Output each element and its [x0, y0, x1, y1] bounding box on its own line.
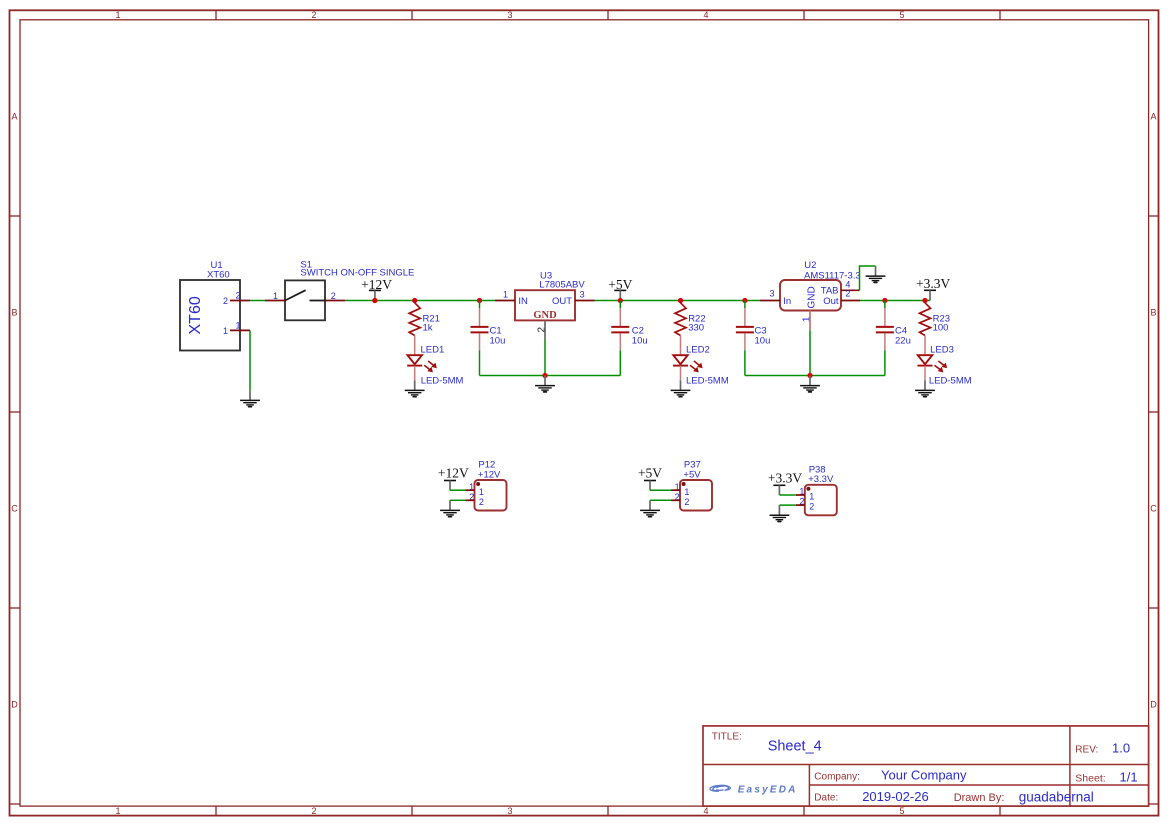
P37 pin 1 stub	[671, 489, 680, 491]
U3 pin OUT name	[552, 296, 572, 307]
R21 top stub	[414, 301, 416, 303]
power flag +12V net	[361, 277, 392, 301]
P38 pin 1 number	[799, 487, 804, 497]
title block frame	[703, 726, 1149, 806]
capacitor C1	[471, 301, 489, 376]
junction at C4	[882, 298, 887, 303]
connector P38 body	[805, 485, 837, 516]
svg-text:1: 1	[503, 290, 508, 300]
U2 pin Out name	[823, 296, 839, 307]
P38 value label +3.3V	[808, 474, 834, 485]
wire U3 GND to ground rail	[544, 340, 546, 376]
junction at R21	[412, 298, 417, 303]
svg-text:D: D	[1150, 700, 1157, 710]
wire P37 pin1	[650, 489, 671, 491]
P12 pin 2 stub	[466, 499, 475, 501]
svg-text:OUT: OUT	[552, 296, 572, 307]
U1 pin 2 stub	[230, 300, 250, 302]
C2 value label 10u	[632, 335, 648, 346]
connector P12 body	[475, 480, 507, 511]
junction at C1	[477, 298, 482, 303]
svg-text:A: A	[1150, 112, 1156, 122]
wire P12 pin1	[450, 489, 466, 491]
P12 pin 1 name	[479, 487, 484, 497]
svg-text:2: 2	[809, 502, 814, 512]
svg-text:1: 1	[684, 487, 689, 497]
LED3 reference label	[930, 345, 954, 356]
R23 reference label	[933, 313, 950, 324]
P38 pin 2 number	[799, 497, 804, 507]
U1 symbol text XT60 rotated	[187, 296, 204, 334]
S1 lever	[285, 290, 306, 300]
svg-text:LED2: LED2	[686, 345, 710, 356]
svg-text:10u: 10u	[490, 335, 506, 346]
svg-text:1: 1	[115, 10, 120, 20]
capacitor C4	[876, 301, 894, 376]
U2 pin 3 number	[769, 288, 774, 298]
svg-text:SWITCH ON-OFF SINGLE: SWITCH ON-OFF SINGLE	[300, 268, 414, 279]
svg-text:+12V: +12V	[361, 277, 392, 292]
connector U1 XT60 body	[180, 280, 240, 351]
svg-text:1: 1	[479, 487, 484, 497]
svg-text:D: D	[11, 700, 18, 710]
svg-text:+12V: +12V	[438, 466, 469, 481]
ground at U2 TAB	[866, 266, 886, 282]
title block TITLE label	[712, 731, 742, 742]
P37 pin1 marker dot	[682, 482, 686, 486]
S1 value label SWITCH ON-OFF SINGLE	[300, 268, 414, 279]
svg-text:+5V: +5V	[608, 277, 632, 292]
R23 top stub	[924, 301, 926, 303]
U3 pin 1 stub	[495, 300, 515, 302]
drawn by value guadabernal	[1019, 789, 1094, 804]
P12 reference label	[478, 460, 495, 471]
P37 pin 1 name	[684, 487, 689, 497]
ground at P12	[440, 500, 460, 516]
U2 pin TAB name	[821, 285, 839, 296]
P37 reference label	[684, 460, 701, 471]
svg-text:Out: Out	[823, 296, 839, 307]
C4 value label 22u	[895, 335, 911, 346]
S1 pin 1 number	[273, 291, 278, 301]
svg-text:3: 3	[507, 10, 512, 20]
LED LED3	[918, 336, 948, 381]
svg-text:10u: 10u	[632, 335, 648, 346]
R21 value label 1k	[423, 322, 433, 333]
P38 reference label	[809, 464, 826, 475]
LED1 reference label	[421, 345, 445, 356]
resistor R22	[675, 303, 686, 336]
svg-text:1: 1	[223, 326, 228, 336]
wire U1 pin1 to ground	[249, 330, 251, 390]
company value Your Company	[881, 768, 967, 783]
svg-text:C: C	[11, 504, 18, 514]
LED LED2	[673, 336, 703, 381]
junction at R23	[922, 298, 927, 303]
svg-text:4: 4	[703, 10, 708, 20]
P12 pin 2 name	[479, 497, 484, 507]
U2 pin 2 number	[845, 288, 850, 298]
U2 pin 4 number	[845, 280, 850, 290]
EasyEDA logo	[710, 784, 798, 795]
C4 reference label	[895, 326, 907, 337]
svg-text:4: 4	[703, 806, 708, 816]
U1 pin 2 name	[223, 296, 228, 306]
svg-text:2: 2	[479, 497, 484, 507]
title block Drawn By label	[954, 792, 1005, 804]
wire U2 GND to ground rail	[809, 330, 811, 375]
title block Date label	[814, 793, 838, 804]
C2 reference label	[632, 326, 644, 337]
U3 pin 3 number	[580, 290, 585, 300]
svg-text:In: In	[783, 296, 791, 307]
svg-text:LED1: LED1	[421, 345, 445, 356]
U1 pin 2 number	[235, 291, 240, 301]
U3 pin 1 number	[503, 290, 508, 300]
svg-text:Your Company: Your Company	[881, 768, 967, 783]
svg-text:EasyEDA: EasyEDA	[738, 784, 798, 795]
ground at U1 pin 1	[240, 390, 260, 406]
S1 pin 2 stub	[325, 300, 345, 302]
P12 pin1 marker dot	[476, 482, 480, 486]
connector P37 body	[680, 480, 712, 511]
P38 pin1 marker dot	[806, 487, 810, 491]
S1 pin 1 stub	[265, 300, 285, 302]
U3 pin 3 stub	[575, 300, 595, 302]
ground at LED2	[671, 380, 691, 396]
svg-text:2: 2	[235, 291, 240, 301]
switch S1 body	[285, 280, 325, 320]
junction at R22	[678, 298, 683, 303]
P37 pin 2 name	[684, 497, 689, 507]
svg-text:XT60: XT60	[187, 296, 204, 334]
P37 pin 2 stub	[671, 499, 680, 501]
U2 pin GND name rotated	[807, 286, 818, 308]
title block REV label	[1075, 745, 1098, 756]
junction at U2 ground	[807, 373, 812, 378]
P37 pin 1 number	[675, 482, 680, 492]
svg-text:REV:: REV:	[1075, 745, 1098, 756]
wire ground rail under U2	[745, 375, 885, 377]
wire U2 TAB to ground	[860, 266, 876, 290]
svg-text:2: 2	[223, 296, 228, 306]
resistor R23	[920, 303, 931, 336]
R22 reference label	[688, 313, 705, 324]
regulator U3 body	[515, 290, 575, 320]
U3 value label L7805ABV	[539, 279, 585, 290]
wire +12V rail	[345, 300, 495, 302]
svg-text:2: 2	[311, 10, 316, 20]
svg-text:GND: GND	[533, 310, 557, 321]
U2 pin TAB stub	[841, 289, 860, 291]
svg-text:1: 1	[235, 321, 240, 331]
svg-text:+5V: +5V	[638, 466, 662, 481]
svg-text:5: 5	[899, 806, 904, 816]
svg-text:+3.3V: +3.3V	[808, 474, 834, 485]
svg-text:Date:: Date:	[814, 793, 838, 804]
svg-text:B: B	[1150, 308, 1156, 318]
sheet title Sheet_4	[768, 739, 822, 755]
svg-text:1: 1	[115, 806, 120, 816]
wire U1 pin2 to S1 pin1	[250, 300, 265, 302]
U2 value label AMS1117-3.3	[804, 271, 861, 282]
U2 pin 1 stub	[809, 311, 811, 331]
C3 reference label	[755, 326, 767, 337]
wire ground rail under U3	[480, 375, 621, 377]
ground at U3	[535, 376, 555, 392]
U2 pin In stub	[760, 300, 780, 302]
ground at LED3	[915, 380, 935, 396]
regulator U2 body	[780, 280, 841, 311]
svg-text:100: 100	[933, 322, 949, 333]
svg-text:GND: GND	[807, 286, 818, 308]
U2 pin In name	[783, 296, 791, 307]
capacitor C3	[736, 301, 754, 376]
svg-text:L7805ABV: L7805ABV	[539, 279, 585, 290]
capacitor C2	[611, 301, 629, 376]
svg-text:3: 3	[580, 290, 585, 300]
svg-text:3: 3	[769, 288, 774, 298]
svg-text:1/1: 1/1	[1120, 770, 1138, 785]
title block Sheet label	[1075, 772, 1105, 784]
wire P38 pin2	[779, 504, 795, 506]
P12 value label +12V	[478, 469, 501, 480]
LED1 value label LED-5MM	[421, 376, 464, 387]
svg-text:+5V: +5V	[683, 469, 701, 480]
junction at U3 ground	[542, 373, 547, 378]
P37 value label +5V	[683, 469, 701, 480]
ground at LED1	[405, 380, 425, 396]
P12 pin 1 stub	[466, 489, 475, 491]
svg-text:Drawn By:: Drawn By:	[954, 792, 1005, 804]
svg-text:1.0: 1.0	[1112, 741, 1130, 756]
svg-text:+12V: +12V	[478, 469, 501, 480]
ground at P38	[770, 505, 790, 521]
R21 reference label	[423, 313, 440, 324]
U1 pin 1 name	[223, 326, 228, 336]
wire +5V rail	[595, 300, 761, 302]
svg-text:AMS1117-3.3: AMS1117-3.3	[804, 271, 861, 282]
svg-text:5: 5	[899, 10, 904, 20]
svg-text:330: 330	[688, 322, 704, 333]
P37 pin 2 number	[675, 492, 680, 502]
svg-text:LED-5MM: LED-5MM	[421, 376, 464, 387]
wire P37 pin2	[650, 499, 671, 501]
P12 pin 2 number	[469, 492, 474, 502]
svg-text:Sheet:: Sheet:	[1075, 772, 1105, 784]
power flag +3.3V at P38	[768, 470, 802, 495]
ground at P37	[640, 500, 660, 516]
svg-text:LED-5MM: LED-5MM	[686, 376, 729, 387]
U1 pin 1 number	[235, 321, 240, 331]
P38 pin 2 name	[809, 502, 814, 512]
P38 pin 2 stub	[796, 504, 805, 506]
power flag +12V at P12	[438, 466, 469, 491]
svg-text:LED-5MM: LED-5MM	[929, 376, 972, 387]
svg-text:Company:: Company:	[814, 771, 860, 782]
junction at C3	[742, 298, 747, 303]
ground at U2 pin 1	[800, 376, 820, 392]
svg-text:guadabernal: guadabernal	[1019, 789, 1094, 804]
C3 value label 10u	[755, 335, 771, 346]
svg-text:Sheet_4: Sheet_4	[768, 739, 822, 755]
svg-text:10u: 10u	[755, 335, 771, 346]
R23 value label 100	[933, 322, 949, 333]
svg-text:B: B	[11, 308, 17, 318]
U1 reference label	[211, 260, 223, 271]
P38 pin 1 stub	[796, 494, 805, 496]
svg-text:C: C	[1150, 504, 1157, 514]
R22 top stub	[680, 301, 682, 303]
U3 reference label	[540, 270, 552, 281]
U3 GND pin stub	[544, 320, 546, 339]
svg-text:TITLE:: TITLE:	[712, 731, 742, 742]
S1 contact	[310, 300, 326, 302]
svg-text:1k: 1k	[423, 322, 433, 333]
wire P12 pin2	[450, 499, 466, 501]
svg-text:2019-02-26: 2019-02-26	[862, 789, 929, 804]
power flag +5V net	[608, 277, 632, 301]
wire +3.3V rail	[860, 300, 930, 302]
svg-text:1: 1	[809, 492, 814, 502]
U2 pin 1 number rotated	[800, 316, 812, 322]
svg-text:+3.3V: +3.3V	[768, 470, 802, 485]
svg-text:+3.3V: +3.3V	[916, 276, 950, 291]
svg-text:IN: IN	[518, 296, 528, 307]
U3 pin IN name	[518, 296, 528, 307]
U3 pin GND name	[533, 310, 557, 321]
svg-text:A: A	[11, 112, 17, 122]
svg-text:TAB: TAB	[821, 285, 839, 296]
U2 pin Out stub	[841, 300, 860, 302]
svg-text:3: 3	[507, 806, 512, 816]
LED3 value label LED-5MM	[929, 376, 972, 387]
S1 reference label	[300, 260, 312, 271]
svg-text:2: 2	[684, 497, 689, 507]
svg-text:22u: 22u	[895, 335, 911, 346]
svg-text:2: 2	[845, 288, 850, 298]
S1 pin 2 number	[331, 291, 336, 301]
junction at C2	[618, 298, 623, 303]
U3 pin 2 number rotated	[537, 327, 548, 333]
svg-text:2: 2	[311, 806, 316, 816]
svg-text:LED3: LED3	[930, 345, 954, 356]
power flag +5V at P37	[638, 466, 662, 491]
sheet value 1/1	[1120, 770, 1138, 785]
LED2 reference label	[686, 345, 710, 356]
LED LED1	[407, 336, 437, 381]
C1 reference label	[490, 326, 502, 337]
resistor R21	[409, 303, 420, 336]
svg-text:XT60: XT60	[207, 269, 230, 280]
LED2 value label LED-5MM	[686, 376, 729, 387]
title block Company label	[814, 771, 860, 782]
svg-text:U2: U2	[804, 260, 816, 271]
U1 value label XT60	[207, 269, 230, 280]
date value 2019-02-26	[862, 789, 929, 804]
power flag +3.3V net	[916, 276, 950, 301]
revision value 1.0	[1112, 741, 1130, 756]
C1 value label 10u	[490, 335, 506, 346]
U1 pin 1 stub	[230, 329, 250, 331]
wire P38 pin1	[779, 494, 795, 496]
svg-text:2: 2	[537, 327, 548, 333]
P12 pin 1 number	[469, 482, 474, 492]
U2 reference label	[804, 260, 816, 271]
R22 value label 330	[688, 322, 704, 333]
P38 pin 1 name	[809, 492, 814, 502]
junction at +12V flag	[372, 298, 377, 303]
